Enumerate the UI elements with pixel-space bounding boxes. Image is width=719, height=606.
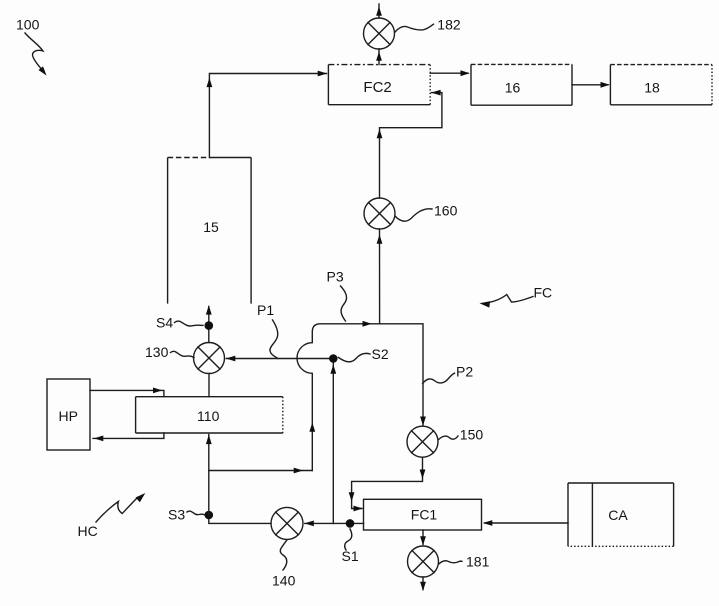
svg-text:16: 16 bbox=[505, 79, 521, 95]
svg-text:P2: P2 bbox=[456, 364, 473, 380]
label P3 bbox=[327, 269, 347, 322]
label 150 bbox=[439, 427, 484, 443]
svg-text:110: 110 bbox=[197, 408, 220, 424]
svg-text:CA: CA bbox=[608, 507, 628, 523]
wire S4 stem bbox=[206, 305, 212, 342]
svg-text:S3: S3 bbox=[168, 507, 185, 523]
wire S2 riser bbox=[330, 359, 336, 524]
label P2 bbox=[423, 364, 474, 384]
label 182 bbox=[395, 17, 461, 33]
label 140 bbox=[272, 540, 296, 589]
junction S1 bbox=[346, 519, 355, 528]
box CA bbox=[568, 483, 674, 546]
wire valve182 top outlet bbox=[376, 4, 382, 18]
valve 160 bbox=[364, 198, 395, 229]
label S4 bbox=[156, 315, 203, 331]
valve 140 bbox=[271, 507, 303, 539]
label 160 bbox=[395, 203, 458, 222]
valve 182 bbox=[364, 18, 395, 49]
wire valve160 to FC2 right side bbox=[377, 90, 442, 198]
label S2 bbox=[339, 346, 389, 362]
wire 15 to FC2 bbox=[207, 71, 328, 158]
valve 150 bbox=[407, 426, 438, 457]
wire HP to 110 top link bbox=[90, 388, 164, 397]
wire riser to valve160 bbox=[377, 229, 383, 324]
label FC bbox=[479, 285, 552, 308]
svg-text:FC2: FC2 bbox=[363, 79, 391, 96]
label 130 bbox=[145, 344, 194, 360]
wire P1 line S2 to valve130 bbox=[226, 356, 333, 362]
wire FC2 to 16 bbox=[430, 70, 470, 76]
svg-text:S4: S4 bbox=[156, 315, 173, 331]
svg-text:P1: P1 bbox=[257, 302, 274, 318]
box 110 bbox=[136, 397, 283, 433]
svg-text:18: 18 bbox=[644, 79, 660, 95]
junction S4 bbox=[205, 321, 214, 330]
svg-text:160: 160 bbox=[434, 203, 458, 219]
svg-text:15: 15 bbox=[203, 219, 219, 235]
svg-text:S1: S1 bbox=[342, 548, 359, 564]
svg-text:100: 100 bbox=[16, 17, 40, 33]
wire valve140 to S3 corner bbox=[209, 515, 271, 523]
box 18 bbox=[610, 65, 712, 105]
svg-text:P3: P3 bbox=[327, 269, 344, 285]
box FC2 bbox=[328, 65, 430, 105]
label S3 bbox=[168, 507, 205, 523]
wire FC1 output line to valve140 bbox=[305, 521, 364, 527]
svg-text:182: 182 bbox=[437, 17, 461, 33]
junction S2 bbox=[329, 354, 338, 363]
svg-text:HP: HP bbox=[58, 408, 77, 424]
label P1 bbox=[257, 302, 278, 359]
label 100 bbox=[16, 17, 49, 78]
wire valve150 to FC1 bbox=[349, 457, 426, 511]
svg-text:181: 181 bbox=[466, 554, 490, 570]
svg-text:HC: HC bbox=[78, 523, 98, 539]
wire 110 to HP bottom link bbox=[93, 433, 164, 441]
wire FC1 to valve181 bbox=[420, 530, 426, 546]
svg-text:FC: FC bbox=[534, 285, 553, 301]
svg-text:130: 130 bbox=[145, 344, 169, 360]
wire vertical below 110 bbox=[206, 435, 212, 516]
svg-text:FC1: FC1 bbox=[411, 507, 438, 523]
box FC1 bbox=[364, 499, 482, 530]
svg-text:S2: S2 bbox=[372, 346, 389, 362]
box HP bbox=[47, 379, 90, 450]
box 15 bbox=[168, 158, 252, 304]
label S1 bbox=[342, 529, 359, 564]
wire FC2 to valve182 bbox=[376, 49, 382, 65]
wire junction to bridge riser bbox=[209, 468, 312, 474]
wire CA to FC1 bbox=[483, 520, 568, 526]
svg-text:150: 150 bbox=[460, 427, 484, 443]
label HC bbox=[78, 491, 148, 539]
valve 130 bbox=[194, 343, 225, 374]
valve 181 bbox=[408, 546, 439, 577]
label 181 bbox=[439, 554, 490, 570]
wire 16 to 18 bbox=[572, 82, 610, 88]
box 16 bbox=[471, 64, 572, 105]
junction S3 bbox=[205, 511, 214, 520]
svg-text:140: 140 bbox=[272, 573, 296, 589]
wire valve181 outlet bbox=[420, 577, 426, 591]
wire P3 path: bridge riser, top run, P2 drop bbox=[297, 321, 426, 471]
wire valve130 to 110 bbox=[208, 374, 210, 397]
